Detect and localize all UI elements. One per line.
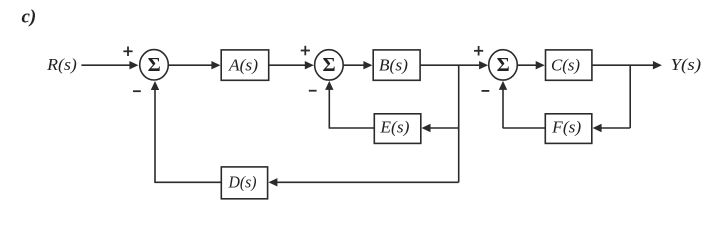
wire S1 to A(s) [168,61,220,69]
minus sign at summer S2 [309,90,317,92]
summing junction S3 [489,50,518,80]
svg-text:E(s): E(s) [379,118,409,137]
wire E(s) out to below S2 [329,127,375,129]
minus sign at summer S3 [482,90,490,92]
block F(s) [545,114,592,144]
wire into E(s) from takeoff [422,124,459,132]
wire takeoff down from C output (vertical to F row) [629,65,631,128]
svg-text:B(s): B(s) [379,56,408,75]
plus sign at summer S1 [123,47,132,57]
svg-text:Σ: Σ [148,54,161,76]
wire S3 to C(s) [517,61,544,69]
wire into D(s) from takeoff (bottom feedback) [268,178,458,186]
svg-text:D(s): D(s) [228,173,257,192]
svg-text:Σ: Σ [497,54,510,76]
plus sign at summer S3 [474,46,483,56]
block A(s) [221,50,269,80]
svg-text:Y(s): Y(s) [671,55,702,74]
wire into F(s) from takeoff [593,124,631,132]
wire R(s) to summer S1 [81,61,138,69]
svg-text:Σ: Σ [323,54,336,76]
plus sign at summer S2 [301,46,310,56]
svg-text:C(s): C(s) [551,56,580,75]
wire D(s) out to below S1 [154,181,221,183]
svg-text:R(s): R(s) [46,55,77,74]
wire S2 to B(s) [343,61,372,69]
block B(s) [373,50,420,80]
block D(s) [221,167,267,199]
wire up into S3 (negative feedback) [499,81,507,128]
wire A(s) to summer S2 [269,61,314,69]
summing junction S2 [315,50,344,80]
svg-text:c): c) [22,7,37,28]
wire F(s) out to below S3 [503,127,546,129]
summing junction S1 [140,50,169,80]
wire up into S1 (negative feedback) [151,81,159,182]
wire up into S2 (negative feedback) [325,81,333,128]
block E(s) [374,114,421,144]
svg-text:F(s): F(s) [551,118,581,137]
wire C(s) to output Y(s) [592,61,662,69]
block C(s) [546,50,592,80]
wire takeoff down from B output (vertical to E and D rows) [458,65,460,182]
wire B(s) to summer S3 [420,61,488,69]
minus sign at summer S1 [133,90,141,92]
svg-text:A(s): A(s) [228,56,258,75]
